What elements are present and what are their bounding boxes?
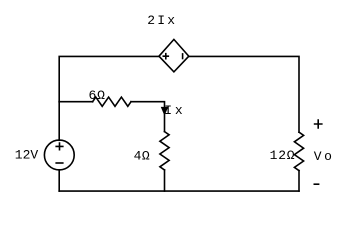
wire 12ohm bottom to bottom-right corner [298, 171, 300, 192]
plus mark inside source [56, 143, 63, 150]
voltage source V1 (circle) [44, 140, 74, 170]
minus mark inside source [56, 162, 63, 164]
dependent source U1 (diamond) [159, 39, 189, 72]
svg-text:Vo: Vo [314, 149, 335, 164]
resistor 6ohm (horizontal zigzag) [93, 97, 131, 106]
svg-text:12Ω: 12Ω [270, 148, 296, 163]
resistor 12ohm (vertical zigzag) [294, 132, 303, 170]
svg-text:12V: 12V [15, 147, 39, 162]
plus mark Vo polarity [315, 120, 322, 128]
wire top-left to diamond [59, 56, 159, 101]
resistor 4ohm (vertical zigzag) [160, 132, 169, 170]
wire 4ohm bottom to bottom wire [164, 170, 166, 191]
minus mark Vo polarity [314, 183, 318, 185]
wire source bottom to bottom-left corner [58, 170, 60, 191]
wire mid-left to 6ohm [59, 101, 92, 103]
wire 6ohm to corner and down to 4ohm [131, 102, 165, 132]
current arrow Ix (down) [161, 107, 168, 115]
plus mark inside diamond [163, 54, 168, 59]
svg-text:2Ix: 2Ix [147, 13, 177, 28]
svg-text:Ix: Ix [164, 103, 185, 118]
wire left vertical into source top [58, 102, 60, 141]
bottom wire [59, 190, 299, 192]
minus mark (vertical bar) inside diamond [182, 54, 184, 59]
svg-text:4Ω: 4Ω [134, 148, 151, 163]
svg-text:6Ω: 6Ω [89, 88, 106, 103]
wire diamond to top-right corner and down to 12ohm [189, 56, 299, 132]
